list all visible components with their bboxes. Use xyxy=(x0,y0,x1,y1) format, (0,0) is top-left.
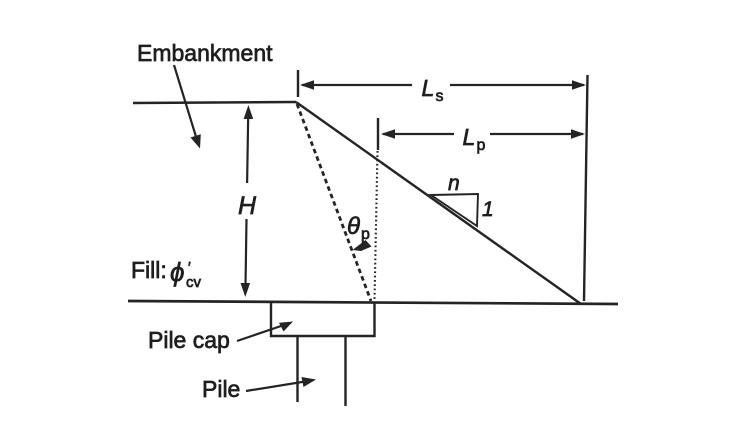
svg-text:Embankment: Embankment xyxy=(137,40,273,66)
svg-text:p: p xyxy=(477,137,486,154)
svg-text:Pile: Pile xyxy=(202,376,240,402)
svg-text:θ: θ xyxy=(347,213,360,240)
svg-text:Fill:: Fill: xyxy=(131,257,167,283)
svg-text:n: n xyxy=(448,172,460,195)
svg-text:s: s xyxy=(436,88,444,105)
svg-text:1: 1 xyxy=(482,198,494,221)
svg-text:H: H xyxy=(238,192,257,220)
svg-text:p: p xyxy=(361,226,370,243)
svg-text:Pile cap: Pile cap xyxy=(148,327,230,353)
svg-text:L: L xyxy=(422,75,435,101)
svg-text:ϕ: ϕ xyxy=(170,257,184,287)
svg-text:L: L xyxy=(463,124,476,150)
svg-text:cv: cv xyxy=(186,274,202,291)
